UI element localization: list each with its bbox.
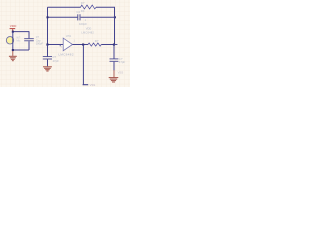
svg-text:VDD: VDD	[10, 24, 17, 28]
wire feedback cap rail right	[81, 16, 115, 18]
svg-text:R?: R?	[95, 39, 99, 43]
svg-text:VDD: VDD	[86, 26, 92, 30]
wire feedback top rail left	[48, 6, 81, 8]
microphone diaphragm bar	[12, 36, 14, 44]
capacitor C1 lead top	[28, 31, 30, 38]
power port VSS arrow	[109, 70, 119, 82]
wire VDD rail to cap C1	[13, 31, 29, 33]
svg-text:R?: R?	[81, 1, 85, 5]
node mic-ground junction	[12, 49, 14, 51]
capacitor C4 plates	[110, 58, 119, 60]
resistor R1	[81, 5, 97, 9]
svg-text:100pF: 100pF	[36, 42, 44, 46]
wire feedback right vertical	[114, 7, 116, 44]
ground symbol left	[9, 51, 17, 61]
capacitor C1 plates	[24, 38, 34, 40]
svg-text:Mic: Mic	[16, 39, 21, 43]
node rail2 left junction	[47, 16, 49, 18]
wire op-amp output	[73, 44, 89, 46]
svg-text:C4: C4	[76, 10, 80, 14]
node input junction	[46, 44, 48, 46]
node rail2 right junction	[114, 16, 116, 18]
svg-text:R4: R4	[81, 9, 85, 13]
pin 3 tick	[59, 45, 61, 47]
svg-text:Cap: Cap	[36, 38, 41, 42]
svg-text:LMC6482: LMC6482	[81, 30, 94, 34]
wire op-amp input	[48, 44, 64, 46]
sheet background	[0, 0, 130, 87]
capacitor C4 lead top	[113, 45, 115, 59]
node VDD junction	[12, 31, 14, 33]
wire output to right junction	[101, 44, 114, 46]
power port VSS bar	[83, 84, 89, 86]
power port VDD	[10, 24, 17, 31]
svg-text:C?: C?	[36, 35, 40, 39]
capacitor C3 lead bottom	[47, 60, 49, 67]
wire feedback left vertical	[47, 7, 49, 44]
svg-text:LMC6482: LMC6482	[58, 53, 73, 57]
microphone MK1 body	[6, 37, 13, 44]
wire feedback cap rail left	[48, 16, 78, 18]
ground symbol middle	[43, 67, 52, 71]
wire output stub	[114, 44, 117, 46]
svg-text:47pF: 47pF	[53, 59, 60, 63]
op-amp U1 triangle	[63, 38, 72, 51]
microphone MK1 pin top	[12, 32, 14, 37]
wire VSS branch vertical	[82, 45, 84, 85]
capacitor C4 lead bottom	[113, 62, 115, 71]
capacitor C2 plates	[77, 14, 79, 20]
node right junction	[113, 44, 115, 46]
svg-text:U?A: U?A	[66, 34, 72, 38]
resistor R2	[88, 43, 101, 46]
capacitor C3 lead top	[47, 45, 49, 57]
capacitor C1 lead bottom	[28, 41, 30, 50]
capacitor C3 plates	[43, 56, 52, 58]
svg-text:VSS: VSS	[90, 83, 96, 87]
wire feedback top rail right	[96, 6, 115, 8]
microphone MK1 pin bottom	[12, 44, 14, 50]
wire bottom-left rail	[13, 49, 29, 51]
svg-text:47pF: 47pF	[119, 60, 126, 64]
svg-text:VSS: VSS	[118, 70, 124, 74]
svg-text:100pF: 100pF	[79, 22, 87, 26]
node output junction A	[82, 44, 84, 46]
